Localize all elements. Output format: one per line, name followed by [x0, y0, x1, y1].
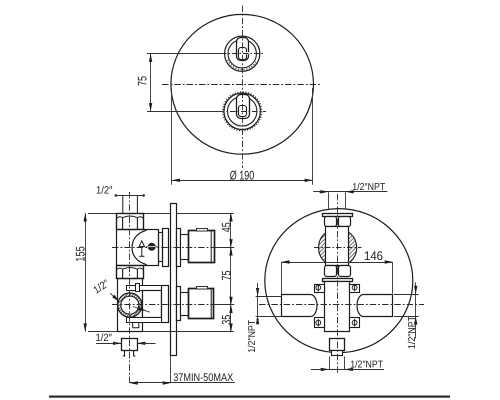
top NPT arrows	[320, 190, 328, 193]
bottom outlet nut	[332, 351, 343, 356]
horizontal pipes centerline	[259, 304, 424, 306]
lower hex nut	[325, 266, 351, 277]
rough-in body circle rear view	[265, 209, 413, 353]
top knob handle notch	[244, 52, 249, 54]
bottom outlet tube	[330, 339, 345, 351]
dim 155 arrow down	[84, 323, 87, 331]
vertical centerline	[337, 194, 339, 374]
bottom NPT extension lines	[329, 357, 331, 370]
dim 75 extension line top	[147, 53, 225, 55]
dim 146 extension right	[392, 262, 394, 294]
dim top NPT leader line	[313, 191, 387, 193]
dim 37-50 dimension line	[130, 382, 235, 384]
screw bottom-right	[352, 319, 357, 326]
valve top extension line	[88, 213, 234, 215]
top knob outer circle	[225, 36, 260, 71]
bottom outlet fitting	[122, 339, 138, 351]
svg-text:146: 146	[364, 249, 383, 263]
top knob handle button	[239, 48, 247, 60]
dim 75 dimension line	[150, 54, 152, 112]
svg-text:35: 35	[219, 315, 233, 325]
svg-text:45: 45	[219, 222, 233, 232]
top knob horizontal centerline	[221, 53, 264, 55]
bottom knob knurl ring	[223, 92, 262, 131]
thermostat dome cap arc	[132, 230, 147, 265]
pipe1 collar right of plate	[177, 229, 181, 267]
pipe1 collar ring left of plate	[163, 229, 169, 267]
dim D190 arrow left	[172, 179, 180, 182]
svg-text:1/2″: 1/2″	[91, 277, 112, 296]
dim 75 arrows	[229, 247, 232, 255]
dim 146 dimension line	[281, 262, 393, 264]
drawing frame bottom border	[49, 396, 450, 398]
dim 1/2 bottom left line	[96, 343, 121, 345]
pipe1 key tab	[197, 229, 208, 232]
mounting ear bottom-left	[315, 318, 325, 328]
left NPT extension lines	[256, 296, 282, 298]
dim 75 arrow down	[149, 103, 152, 111]
port second arrow	[138, 307, 147, 313]
screw top-left	[316, 284, 321, 291]
dim 75 extension line bottom	[147, 111, 223, 113]
svg-text:75: 75	[219, 270, 233, 280]
pipe2 key tab	[197, 287, 208, 290]
port second leader	[133, 307, 150, 313]
dim 1/2 top end dots	[115, 194, 118, 197]
body upper ear tab	[136, 284, 140, 292]
screw bottom-left	[316, 319, 321, 326]
svg-text:1/2″: 1/2″	[96, 332, 113, 344]
bottom knob outer circle	[224, 93, 260, 129]
body lower mounting ear	[127, 318, 162, 323]
right NPT extension lines	[394, 294, 419, 296]
hex nut top	[116, 214, 143, 230]
dim D190 extension line left	[171, 88, 173, 185]
valve bottom extension line right	[142, 331, 234, 333]
cartridge boss centerline	[314, 247, 362, 249]
dim 155 arrow up	[84, 213, 87, 221]
port leader line	[110, 293, 118, 300]
svg-text:155: 155	[74, 246, 88, 262]
top knob lever handle	[237, 38, 249, 61]
dim D190 arrow right	[305, 179, 313, 182]
dim 146 extension left	[281, 262, 283, 295]
limit stop screw	[148, 243, 156, 251]
dim 35 arrows	[229, 305, 232, 313]
cartridge boss circle hatched	[319, 229, 357, 267]
volume valve body	[118, 279, 143, 332]
body lower ear slot	[133, 322, 139, 327]
pipe1 neck	[181, 235, 189, 260]
dim 1/2 top line	[116, 195, 145, 197]
pipe1 tube to wall	[159, 233, 163, 262]
pipe2 collar right of plate	[177, 287, 181, 321]
bottom outlet spigot	[123, 351, 136, 356]
ext line pipe1 centerline right	[214, 247, 234, 249]
dim 1/2 bottom right line	[137, 343, 156, 345]
valve vertical centerline	[129, 192, 131, 384]
svg-text:1/2″NPT: 1/2″NPT	[350, 360, 383, 371]
hex nut bottom	[116, 266, 143, 279]
body right block to pipe2	[143, 291, 162, 318]
pipe2 neck	[181, 293, 189, 316]
valve bottom extension line left	[88, 331, 117, 333]
svg-text:1/2″NPT: 1/2″NPT	[407, 316, 418, 349]
svg-text:1/2″NPT: 1/2″NPT	[247, 320, 258, 353]
central valve column	[325, 282, 350, 332]
pipe2 wall flange	[162, 286, 169, 323]
bottom knob inner circle	[228, 97, 257, 126]
lower flange bar	[323, 279, 353, 282]
thermostat body	[117, 230, 159, 266]
temperature up arrow	[139, 241, 144, 256]
dim 75 arrow up	[149, 54, 152, 62]
mounting ear top-left	[315, 285, 325, 293]
dim 155 dimension line	[85, 213, 87, 331]
dim bottom NPT leader line	[311, 369, 384, 371]
pipe2 nipple face line	[210, 289, 212, 319]
pipe2 threaded nipple	[189, 289, 214, 319]
svg-text:Ø 190: Ø 190	[230, 169, 255, 183]
top knob inner circle	[228, 40, 256, 68]
vertical centerline of plate	[242, 6, 244, 169]
wall plate extension line down	[170, 356, 172, 383]
dim D190 extension line right	[312, 88, 314, 185]
tube over cartridge	[326, 227, 349, 266]
svg-text:75: 75	[136, 76, 150, 86]
mounting ear top-right	[350, 285, 360, 293]
bottom knob lever handle	[237, 95, 250, 119]
top inlet cap bar	[323, 214, 353, 217]
body upper mounting ear	[127, 286, 162, 291]
ext line pipe2 centerline right	[214, 304, 234, 306]
mounting ear bottom-right	[350, 318, 360, 328]
dim D190 dimension line	[172, 180, 313, 182]
inlet pipe1 centerline	[112, 247, 218, 249]
trim plate circle front view	[171, 14, 314, 154]
bottom knob handle button	[239, 106, 247, 117]
outlet pipe2 centerline	[112, 304, 218, 306]
svg-text:1/2″: 1/2″	[96, 185, 113, 197]
screw top-right	[352, 284, 357, 291]
top knob knurl arc	[228, 60, 257, 70]
top thread stub	[122, 196, 124, 214]
front port outer circle hatched	[118, 293, 142, 317]
top inlet hex nut	[325, 217, 351, 227]
svg-text:1/2″NPT: 1/2″NPT	[352, 182, 385, 193]
pipe1 nipple face line	[210, 231, 212, 263]
bottom knob horizontal centerline	[219, 111, 266, 113]
left supply pipe	[282, 295, 318, 317]
front port bore	[121, 296, 139, 314]
dim right NPT dimension line	[415, 282, 417, 338]
horizontal centerline of plate	[162, 84, 320, 86]
right supply pipe	[357, 295, 392, 317]
top NPT extension lines	[328, 192, 330, 209]
dim left NPT dimension line	[257, 283, 259, 324]
svg-text:37MIN-50MAX: 37MIN-50MAX	[173, 372, 234, 384]
dim 45-75-35 dimension line	[230, 213, 232, 331]
pipe1 threaded nipple	[189, 231, 215, 263]
wall plate	[171, 204, 177, 356]
port leader arrow	[112, 295, 120, 303]
dim 45 arrows	[229, 213, 232, 221]
